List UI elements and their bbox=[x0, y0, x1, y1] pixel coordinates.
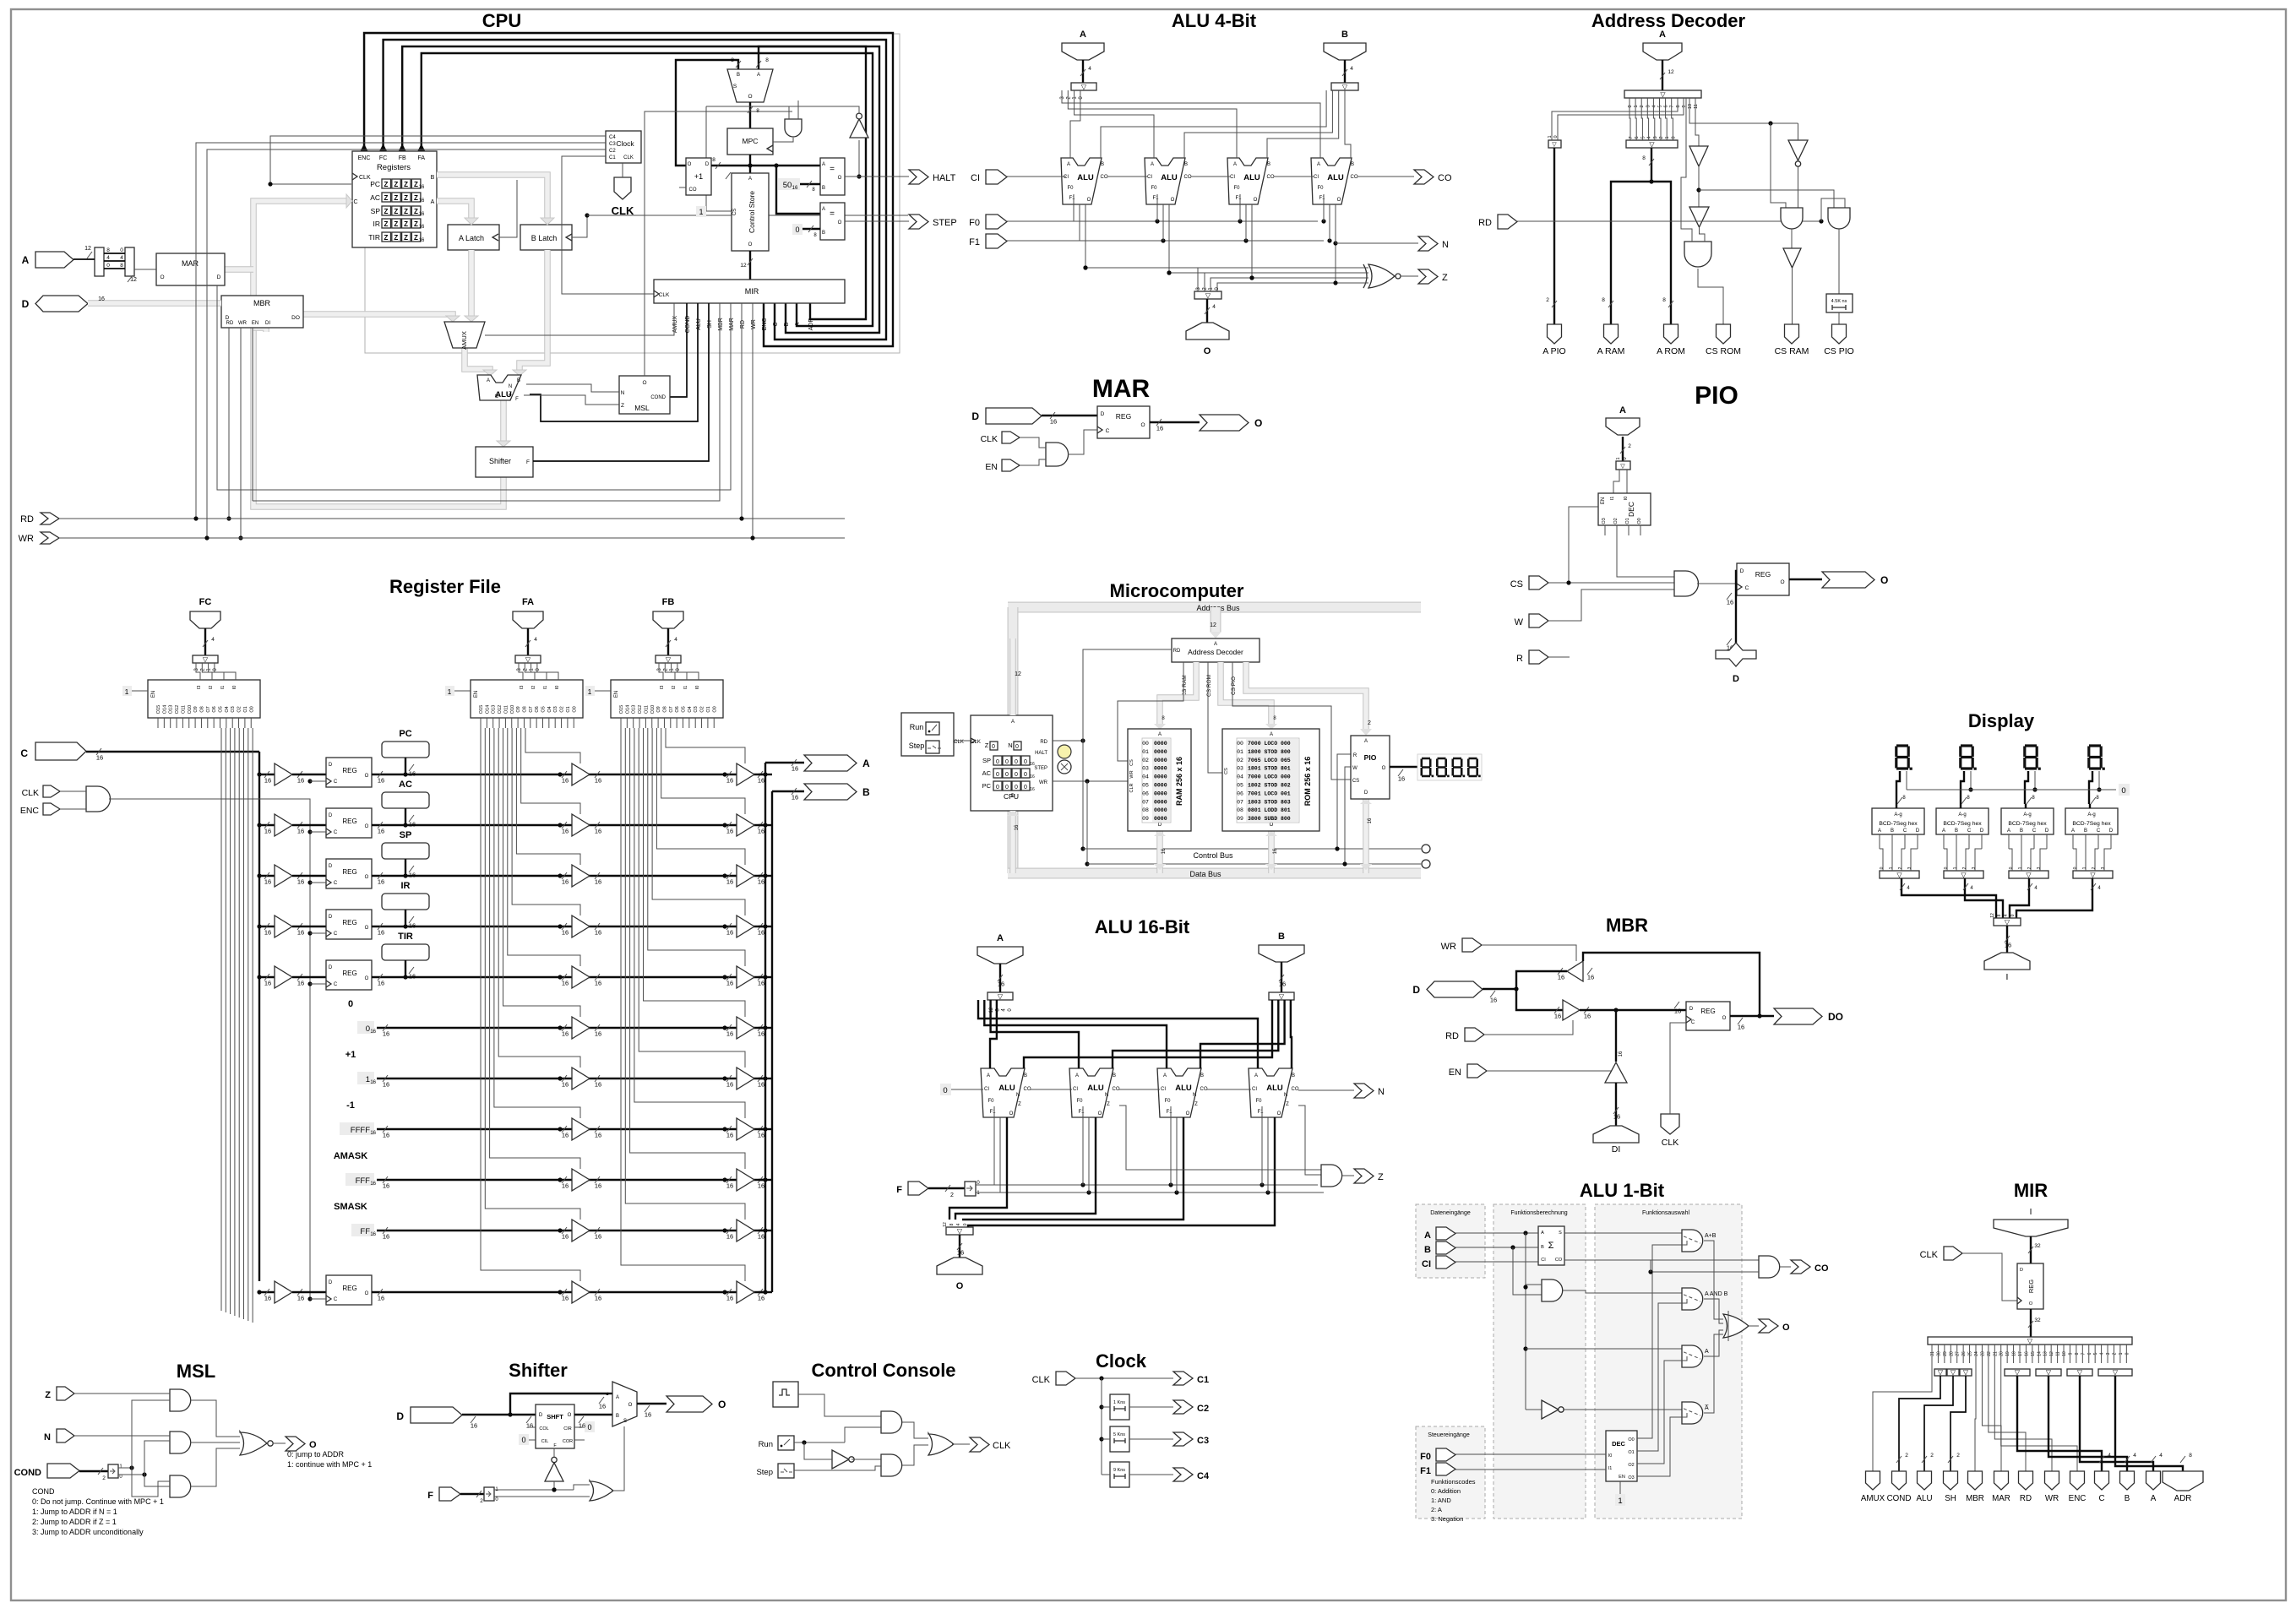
svg-text:R: R bbox=[1516, 654, 1523, 664]
wire D to REG MAR bbox=[1042, 415, 1097, 416]
svg-text:1: 1 bbox=[1953, 867, 1958, 869]
svg-text:MBR: MBR bbox=[718, 318, 724, 331]
wire FB decoder bundle bbox=[621, 728, 745, 1281]
svg-text:BCD-7Seg hex: BCD-7Seg hex bbox=[2008, 821, 2047, 827]
CPU block outline bbox=[365, 34, 900, 353]
svg-text:O0: O0 bbox=[249, 706, 254, 712]
wire bcd pin D2 bbox=[2046, 834, 2048, 849]
svg-text:B: B bbox=[1278, 932, 1285, 942]
svg-text:PC: PC bbox=[399, 729, 411, 739]
wire dec O1 to AANDB enable bbox=[1637, 1299, 1687, 1451]
wire const AMASK out bbox=[377, 1179, 765, 1181]
wire dec O3 to Abar enable bbox=[1637, 1413, 1687, 1476]
svg-text:DEC: DEC bbox=[1627, 502, 1635, 517]
svg-text:▽: ▽ bbox=[666, 656, 672, 664]
wire REG out row 0 bbox=[372, 774, 765, 775]
console box Run Step bbox=[901, 713, 954, 756]
svg-text:A: A bbox=[1878, 829, 1881, 834]
wire I to REG MIR bbox=[2030, 1236, 2032, 1263]
svg-text:O11: O11 bbox=[503, 705, 509, 714]
svg-text:O4: O4 bbox=[547, 706, 552, 712]
register REG row 10 bbox=[326, 1275, 372, 1305]
svg-text:ALU: ALU bbox=[1077, 173, 1094, 182]
svg-text:Step: Step bbox=[756, 1468, 773, 1477]
svg-text:16: 16 bbox=[383, 1132, 389, 1139]
splitter 8bit low bbox=[1626, 140, 1678, 148]
svg-text:CI: CI bbox=[1314, 175, 1319, 180]
svg-text:C1: C1 bbox=[609, 155, 616, 160]
bus Data Bus band bbox=[1008, 868, 1421, 879]
buffer up MBR bbox=[1605, 1062, 1627, 1083]
wire CO out bbox=[1357, 176, 1414, 177]
svg-text:A: A bbox=[795, 322, 801, 326]
port CI input bbox=[986, 170, 1007, 184]
svg-text:16: 16 bbox=[383, 1233, 389, 1241]
svg-text:16: 16 bbox=[579, 1422, 585, 1430]
wire pins 8 9 to small splitter bbox=[1552, 98, 1678, 140]
svg-text:16: 16 bbox=[792, 186, 798, 191]
wire FC decoder bundle bbox=[220, 728, 222, 1311]
svg-text:Z: Z bbox=[414, 220, 418, 228]
register REG row 0 bbox=[326, 758, 372, 787]
wire carry chain bbox=[1107, 176, 1147, 177]
svg-text:A: A bbox=[1075, 1073, 1079, 1078]
svg-text:▽: ▽ bbox=[525, 656, 531, 664]
and gate MSL Z bbox=[170, 1389, 191, 1411]
svg-text:O15: O15 bbox=[479, 705, 484, 714]
svg-text:B: B bbox=[1292, 1073, 1295, 1078]
svg-text:CS RAM: CS RAM bbox=[1182, 675, 1188, 696]
svg-text:I0: I0 bbox=[1624, 497, 1629, 501]
svg-text:A: A bbox=[2007, 829, 2010, 834]
svg-text:00: 00 bbox=[1237, 741, 1243, 747]
svg-text:1 Kns: 1 Kns bbox=[1113, 1400, 1125, 1405]
svg-text:FC: FC bbox=[379, 155, 387, 161]
wire zero line bbox=[1907, 789, 2116, 790]
wire CS RAM route bbox=[1118, 662, 1183, 761]
svg-text:FA: FA bbox=[522, 597, 534, 607]
svg-text:00: 00 bbox=[1142, 741, 1149, 747]
wire MIR A feedback loop bbox=[422, 53, 873, 326]
svg-text:CO: CO bbox=[1351, 175, 1358, 180]
svg-text:TIR: TIR bbox=[398, 932, 413, 942]
svg-text:D: D bbox=[1101, 411, 1105, 417]
wire and to REG C bbox=[1068, 430, 1097, 454]
svg-text:O: O bbox=[1254, 417, 1262, 429]
svg-text:B: B bbox=[1184, 162, 1188, 167]
svg-text:C: C bbox=[334, 780, 338, 785]
svg-text:Clock: Clock bbox=[1096, 1350, 1147, 1372]
svg-text:Z: Z bbox=[394, 234, 398, 242]
splitter FB bbox=[656, 655, 681, 663]
svg-text:0: 0 bbox=[2010, 914, 2016, 916]
svg-text:2: 2 bbox=[102, 1475, 106, 1481]
port CI input alu1 bbox=[1436, 1256, 1455, 1269]
svg-text:F0: F0 bbox=[1255, 1099, 1262, 1104]
buffer mid row 5 bbox=[558, 1025, 562, 1030]
buffer left MBR bbox=[1567, 961, 1583, 981]
register MBR bbox=[221, 296, 303, 328]
tunnel FC bbox=[190, 611, 220, 628]
svg-text:0: 0 bbox=[963, 1223, 968, 1225]
wire MIR B feedback loop bbox=[402, 46, 879, 333]
wire +1 output loop to MMUX B bbox=[676, 60, 738, 166]
port CS input bbox=[1529, 576, 1548, 589]
svg-text:0: 0 bbox=[1015, 772, 1018, 778]
svg-text:O3: O3 bbox=[694, 706, 699, 712]
port R input bbox=[1529, 650, 1548, 664]
svg-text:A-g: A-g bbox=[2023, 812, 2031, 818]
svg-text:3: 3 bbox=[2037, 867, 2042, 869]
svg-text:CI: CI bbox=[984, 1087, 989, 1092]
svg-text:8: 8 bbox=[1642, 155, 1646, 161]
svg-text:CO: CO bbox=[1292, 1087, 1299, 1092]
port MIR SH bbox=[1944, 1471, 1958, 1490]
svg-text:C: C bbox=[1903, 829, 1907, 834]
or gate shifter bbox=[590, 1480, 613, 1501]
register REG row 4 bbox=[326, 960, 372, 990]
wire digit outputs bbox=[1896, 771, 1900, 804]
svg-text:COND: COND bbox=[1887, 1494, 1912, 1503]
svg-text:WR: WR bbox=[238, 321, 248, 326]
svg-text:1: 1 bbox=[448, 687, 452, 696]
svg-text:F0: F0 bbox=[1233, 186, 1240, 191]
svg-text:F1: F1 bbox=[1420, 1466, 1431, 1476]
wire bcd pin D0 bbox=[1917, 834, 1918, 849]
svg-text:Address Decoder: Address Decoder bbox=[1591, 10, 1746, 31]
port MIR ENC bbox=[2070, 1471, 2085, 1490]
svg-text:WR: WR bbox=[1039, 780, 1048, 785]
svg-text:HALT: HALT bbox=[933, 173, 956, 183]
wire and1 to or bbox=[902, 1422, 928, 1438]
svg-text:2: 2 bbox=[2092, 867, 2097, 869]
svg-text:A: A bbox=[822, 207, 825, 212]
svg-text:29: 29 bbox=[1943, 1351, 1948, 1356]
buffer out row 8 bbox=[722, 1177, 726, 1182]
svg-text:C: C bbox=[334, 982, 338, 987]
svg-text:16: 16 bbox=[1619, 1051, 1624, 1057]
svg-text:16: 16 bbox=[264, 777, 271, 785]
svg-text:C: C bbox=[2098, 1494, 2104, 1503]
svg-text:16: 16 bbox=[758, 1182, 764, 1190]
buffer C row 2 bbox=[257, 873, 261, 877]
wire splitter to MAR O bbox=[134, 269, 156, 270]
svg-text:02: 02 bbox=[1237, 758, 1243, 763]
wire bcd pin C1 bbox=[1968, 834, 1970, 849]
wire N to and2 bbox=[74, 1435, 170, 1437]
svg-text:16: 16 bbox=[409, 973, 416, 981]
svg-text:MPC: MPC bbox=[743, 137, 759, 145]
buffer out row 2 bbox=[722, 873, 726, 877]
svg-text:0: 0 bbox=[1671, 136, 1676, 139]
svg-text:A: A bbox=[757, 73, 760, 78]
svg-text:F1: F1 bbox=[989, 1110, 996, 1115]
svg-text:16: 16 bbox=[1050, 418, 1057, 426]
splitter MIR sub2 c bbox=[1960, 1369, 1972, 1376]
gate out A bbox=[1682, 1345, 1703, 1367]
alu ALU bit 2 bbox=[1227, 158, 1268, 204]
svg-text:O7: O7 bbox=[529, 706, 534, 712]
buffer out row 7 bbox=[722, 1127, 726, 1131]
svg-text:07: 07 bbox=[1237, 799, 1243, 805]
svg-text:ENC: ENC bbox=[2069, 1494, 2087, 1503]
buffer CS RAM bbox=[1791, 229, 1793, 248]
port F1 input alu1 bbox=[1436, 1463, 1455, 1475]
svg-text:CS: CS bbox=[1224, 768, 1229, 774]
wire CS PIO route bbox=[1232, 662, 1351, 780]
svg-text:WR: WR bbox=[2045, 1494, 2059, 1503]
wire bcd pin B3 bbox=[2085, 834, 2087, 849]
svg-text:C4: C4 bbox=[609, 135, 616, 140]
svg-text:O: O bbox=[365, 774, 369, 779]
tunnel B alu4 bbox=[1324, 43, 1366, 60]
svg-text:W: W bbox=[1515, 617, 1524, 627]
svg-text:16: 16 bbox=[595, 1182, 601, 1190]
bus Shifter return to C / MBR DI / MAR D bbox=[253, 201, 503, 507]
wire bcd pin A0 bbox=[1879, 834, 1880, 849]
buffer out row 9 bbox=[722, 1228, 726, 1232]
const 50 hex bbox=[778, 178, 800, 190]
port D input shifter bbox=[411, 1407, 462, 1423]
port EN MAR bbox=[1002, 459, 1020, 471]
svg-text:17: 17 bbox=[2018, 1351, 2023, 1356]
svg-text:I1: I1 bbox=[683, 686, 688, 690]
wire C bus vertical bbox=[258, 752, 260, 1281]
svg-text:▽: ▽ bbox=[2015, 1369, 2021, 1377]
svg-text:16: 16 bbox=[297, 777, 304, 785]
port Z input MSL bbox=[57, 1387, 74, 1400]
svg-text:B: B bbox=[1341, 30, 1348, 40]
svg-text:F0: F0 bbox=[1067, 186, 1074, 191]
svg-text:CLK: CLK bbox=[359, 175, 371, 181]
bus ROM O to data bus bbox=[1268, 831, 1275, 873]
svg-text:I1: I1 bbox=[1610, 497, 1615, 501]
svg-text:CS: CS bbox=[1352, 779, 1359, 784]
wire C input bus bbox=[35, 742, 86, 760]
svg-text:O: O bbox=[365, 824, 369, 829]
svg-text:▽: ▽ bbox=[1081, 84, 1087, 91]
svg-text:▽: ▽ bbox=[998, 993, 1004, 1001]
svg-text:O12: O12 bbox=[498, 705, 503, 714]
wire down to up-buffer bbox=[1615, 1010, 1617, 1062]
wire A vertical tap bbox=[1525, 1233, 1526, 1410]
svg-text:4: 4 bbox=[534, 637, 537, 643]
svg-text:16: 16 bbox=[378, 828, 384, 835]
svg-text:7: 7 bbox=[2081, 1352, 2086, 1355]
svg-text:CI: CI bbox=[1422, 1259, 1431, 1269]
svg-text:O8: O8 bbox=[522, 706, 527, 712]
svg-text:F1: F1 bbox=[1319, 196, 1325, 201]
wire comparator to STEP bbox=[845, 220, 909, 222]
splitter 2bit A PIO bbox=[1548, 140, 1561, 148]
svg-text:2: 2 bbox=[950, 1193, 954, 1198]
svg-text:RAM 256 x 16: RAM 256 x 16 bbox=[1175, 757, 1183, 806]
svg-text:FFFF: FFFF bbox=[351, 1126, 370, 1135]
svg-text:O9: O9 bbox=[193, 706, 199, 712]
svg-text:1: 1 bbox=[366, 1075, 370, 1084]
svg-text:N: N bbox=[1105, 1093, 1108, 1098]
wire or to O out bbox=[1749, 1325, 1759, 1327]
svg-text:ALU: ALU bbox=[998, 1084, 1015, 1093]
svg-text:D: D bbox=[2109, 829, 2114, 834]
svg-text:Z: Z bbox=[414, 208, 418, 215]
port F input shifter bbox=[439, 1487, 460, 1501]
svg-text:16: 16 bbox=[383, 1030, 389, 1038]
wire delay to CS PIO bbox=[1838, 312, 1840, 324]
probe TIR bbox=[382, 944, 429, 960]
svg-text:06: 06 bbox=[1142, 790, 1149, 796]
buffer mid row 8 bbox=[558, 1177, 562, 1182]
svg-text:2: Jump to ADDR if Z = 1: 2: Jump to ADDR if Z = 1 bbox=[32, 1518, 117, 1526]
svg-text:B: B bbox=[1101, 162, 1104, 167]
wire CS ROM out bbox=[1698, 269, 1723, 324]
port COND input bbox=[47, 1464, 79, 1478]
rom Control Store bbox=[732, 173, 769, 251]
wire not to Abar gate bbox=[1563, 1409, 1682, 1410]
svg-text:F0: F0 bbox=[1076, 1099, 1083, 1104]
wire bcd pin B0 bbox=[1891, 834, 1893, 849]
port HALT output bbox=[909, 170, 928, 184]
svg-text:16: 16 bbox=[562, 1233, 569, 1241]
svg-text:24: 24 bbox=[1974, 1351, 1979, 1356]
port O output MAR bbox=[1200, 415, 1249, 431]
svg-text:16: 16 bbox=[1554, 1013, 1561, 1020]
svg-text:O2: O2 bbox=[1613, 518, 1619, 524]
wire C2 to MBR clk bbox=[207, 149, 606, 324]
panel Steuereingaenge bbox=[1416, 1426, 1485, 1518]
splitter display 4 bbox=[2073, 871, 2113, 878]
svg-text:O3: O3 bbox=[1602, 518, 1607, 524]
svg-text:1: 1 bbox=[1665, 136, 1670, 139]
wire to CS PIO and bbox=[1699, 190, 1834, 208]
svg-text:▽: ▽ bbox=[1951, 1369, 1956, 1377]
splitter O alu16 bbox=[946, 1227, 973, 1235]
svg-text:F: F bbox=[427, 1491, 433, 1501]
svg-text:Registers: Registers bbox=[377, 163, 411, 172]
svg-text:N: N bbox=[1016, 1093, 1020, 1098]
svg-text:O: O bbox=[628, 1403, 633, 1408]
wire and to REG C bbox=[1697, 584, 1737, 589]
svg-text:16: 16 bbox=[595, 1030, 601, 1038]
register REG MIR bbox=[2017, 1263, 2043, 1309]
svg-text:0: 0 bbox=[1628, 105, 1633, 107]
port RD input addrdec bbox=[1498, 215, 1517, 229]
svg-text:0: 0 bbox=[795, 225, 799, 234]
svg-text:A+B: A+B bbox=[1705, 1233, 1717, 1239]
svg-text:CS: CS bbox=[1129, 759, 1134, 766]
svg-text:O: O bbox=[1186, 1111, 1190, 1116]
wire carry chain 16 bbox=[1031, 1089, 1072, 1090]
svg-text:B: B bbox=[1267, 162, 1270, 167]
svg-text:O5: O5 bbox=[541, 706, 547, 712]
svg-text:0000: 0000 bbox=[1154, 816, 1167, 822]
svg-text:1803 STOD 803: 1803 STOD 803 bbox=[1248, 799, 1291, 805]
svg-text:Display: Display bbox=[1968, 710, 2035, 731]
wire WR to buffer enable bbox=[1482, 945, 1576, 961]
svg-text:O: O bbox=[160, 274, 164, 280]
port O output shifter bbox=[666, 1396, 712, 1412]
inverter HALT bbox=[850, 119, 868, 138]
wire buffer to REG and DI bbox=[1580, 1009, 1686, 1011]
svg-text:FC: FC bbox=[199, 597, 212, 607]
bcd decoder box 4 bbox=[2065, 808, 2118, 834]
svg-text:O: O bbox=[1382, 766, 1386, 771]
splitter A 12-bit left bbox=[95, 247, 104, 276]
svg-text:Z: Z bbox=[1194, 1102, 1198, 1107]
port C1 output bbox=[1173, 1372, 1193, 1385]
svg-text:▽: ▽ bbox=[2046, 1369, 2052, 1377]
svg-text:7000 LOCO 000: 7000 LOCO 000 bbox=[1248, 774, 1291, 780]
wire not to and2 bbox=[851, 1459, 881, 1460]
svg-text:MAR: MAR bbox=[729, 318, 735, 331]
port CLK tunnel bbox=[614, 177, 631, 199]
svg-text:0: 0 bbox=[1015, 759, 1018, 765]
svg-text:1: 1 bbox=[1634, 105, 1639, 107]
port N input MSL bbox=[57, 1429, 74, 1442]
svg-text:Control Bus: Control Bus bbox=[1193, 851, 1233, 860]
bcd decoder box 1 bbox=[1872, 808, 1924, 834]
svg-text:DEC: DEC bbox=[1612, 1440, 1625, 1448]
svg-text:32: 32 bbox=[2034, 1243, 2041, 1249]
buffer mid row 4 bbox=[558, 975, 562, 979]
svg-text:I: I bbox=[2030, 1208, 2032, 1217]
svg-text:CS PIO: CS PIO bbox=[1231, 676, 1237, 695]
delay box 1 Kns bbox=[1110, 1394, 1129, 1420]
svg-text:3: Negation: 3: Negation bbox=[1431, 1515, 1463, 1523]
register REG MAR bbox=[1097, 406, 1150, 438]
svg-text:0: Addition: 0: Addition bbox=[1431, 1487, 1461, 1495]
svg-text:Steuereingänge: Steuereingänge bbox=[1428, 1432, 1470, 1438]
svg-text:RD: RD bbox=[226, 321, 234, 326]
wire MIR out RD bbox=[1989, 1363, 2026, 1471]
buffer C row 10 bbox=[257, 1290, 261, 1294]
port C3 output bbox=[1173, 1432, 1193, 1446]
wire bcd pin A3 bbox=[2072, 834, 2074, 849]
port A RAM bbox=[1604, 324, 1619, 344]
bus PIO D to data bus bbox=[1363, 799, 1369, 873]
svg-text:C: C bbox=[2032, 829, 2037, 834]
svg-text:10: 10 bbox=[2062, 1351, 2067, 1356]
splitter F alu16 bbox=[965, 1182, 976, 1196]
wire inverter F bbox=[553, 1448, 555, 1457]
wire or to CLK out bbox=[952, 1443, 970, 1445]
wire const +1 out bbox=[377, 1078, 765, 1079]
wire MIR AMUX to AMUX select bbox=[485, 303, 674, 335]
wire A PIO down bbox=[1553, 148, 1555, 324]
svg-text:O2: O2 bbox=[1628, 1463, 1634, 1468]
svg-text:Z: Z bbox=[404, 234, 408, 242]
wire to A ROM bbox=[1651, 182, 1671, 324]
inverter RD bbox=[1788, 140, 1808, 160]
svg-text:26: 26 bbox=[1961, 1351, 1967, 1356]
svg-text:Z: Z bbox=[1286, 1102, 1289, 1107]
svg-text:▽: ▽ bbox=[1896, 872, 1902, 879]
wire DEC EN from CS bbox=[1569, 507, 1598, 583]
svg-text:1: 1 bbox=[2119, 1352, 2124, 1355]
wire MBR clock vertical bbox=[206, 324, 208, 538]
buffer mid row 10 bbox=[558, 1290, 562, 1294]
wire REG out row 10 bbox=[372, 1291, 765, 1293]
svg-text:B: B bbox=[2125, 1494, 2130, 1503]
svg-text:ADR: ADR bbox=[2174, 1494, 2192, 1503]
svg-text:12: 12 bbox=[84, 246, 91, 252]
svg-text:16: 16 bbox=[595, 929, 601, 937]
svg-text:AC: AC bbox=[370, 193, 380, 202]
port N output 16 bbox=[1354, 1084, 1374, 1098]
svg-text:B: B bbox=[1200, 1073, 1204, 1078]
wire CPU WR bbox=[1053, 780, 1128, 782]
wire A16 fanout bbox=[978, 1000, 1258, 1068]
